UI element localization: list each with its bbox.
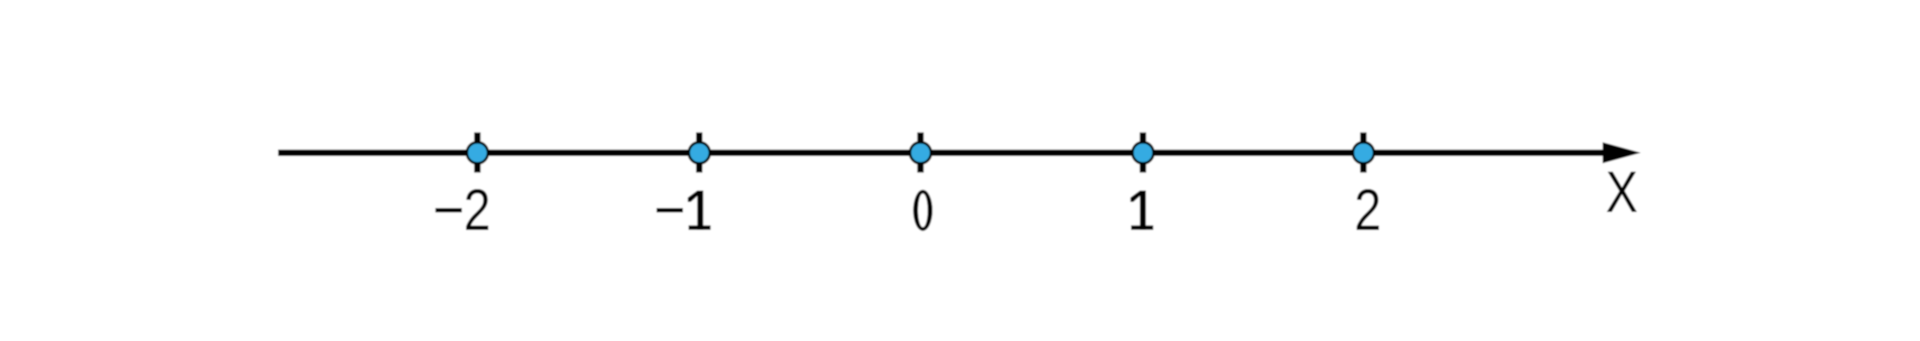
svg-text:2: 2	[1354, 179, 1381, 243]
svg-text:2: 2	[464, 179, 491, 243]
svg-text:X: X	[1606, 161, 1638, 225]
